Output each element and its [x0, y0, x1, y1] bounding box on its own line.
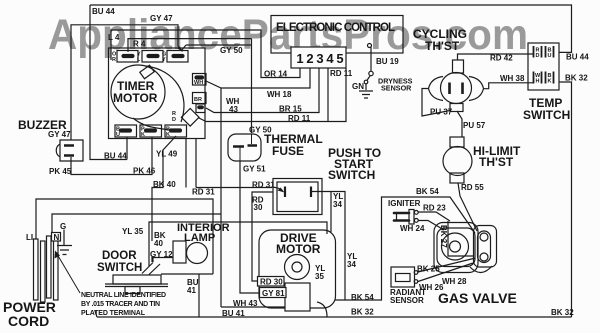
svg-text:WH 24: WH 24: [400, 224, 425, 233]
wire BK32 motor curve: [317, 302, 327, 317]
wire WH43 bottom: [221, 306, 285, 308]
drive motor rotor: [285, 255, 310, 280]
svg-text:RD 31: RD 31: [192, 188, 215, 197]
ground GN: [359, 84, 373, 98]
wire YL34: [312, 192, 345, 301]
timer cam follower curves: [133, 66, 184, 132]
wire BK32 bottom border: [95, 311, 572, 317]
power cord prong L1: [34, 239, 39, 300]
wire RD31 arrowhead: [273, 187, 283, 190]
svg-text:BU 41: BU 41: [222, 309, 245, 318]
cycling thermostat slots: [450, 83, 463, 95]
wire BR15: [206, 67, 319, 113]
node enclosure frame: [149, 222, 327, 266]
svg-text:SENSOR: SENSOR: [390, 296, 424, 305]
svg-text:2: 2: [306, 51, 313, 66]
drive motor RD30 label box: [258, 277, 285, 287]
svg-text:BK 40: BK 40: [153, 180, 176, 189]
svg-text:SENSOR: SENSOR: [381, 84, 412, 93]
svg-text:BK 32: BK 32: [551, 308, 574, 317]
N label box: [52, 233, 61, 242]
svg-text:YL 35: YL 35: [122, 227, 144, 236]
neutral line arrow: [57, 254, 80, 293]
radiant sensor body: [391, 267, 415, 287]
hi-limit body: [443, 147, 472, 176]
igniter body: [409, 210, 414, 225]
wire WH18: [206, 67, 310, 88]
svg-text:LI: LI: [26, 233, 33, 242]
svg-text:K: K: [548, 79, 552, 85]
svg-text:LAMP: LAMP: [184, 232, 215, 244]
electronic control terminal block 1-5: [291, 47, 346, 68]
wire BK32 tempswitch exit and right border: [559, 82, 572, 317]
svg-text:WH 28: WH 28: [442, 277, 467, 286]
cycling thermostat bottom tab: [450, 104, 463, 112]
svg-text:PU 57: PU 57: [463, 121, 486, 130]
svg-text:GY 47: GY 47: [150, 14, 173, 23]
wire BK25: [418, 258, 476, 272]
svg-text:RD 42: RD 42: [490, 54, 513, 63]
wire GY47 buzzer-timer: [71, 25, 178, 140]
power cord ground G: [57, 230, 72, 255]
svg-text:U: U: [116, 132, 120, 138]
power cord prong N: [47, 236, 52, 298]
timer WH terminal: [193, 74, 207, 86]
svg-text:WH 38: WH 38: [500, 74, 525, 83]
timer motor block box: [109, 48, 206, 139]
wire BU41 doorswitch: [161, 274, 213, 317]
svg-text:RD 55: RD 55: [461, 183, 484, 192]
thermal fuse terminals: [233, 146, 257, 147]
hi-limit bottom tab: [450, 173, 464, 183]
timer terminal OR: [117, 51, 138, 63]
wire RD31 stub verticals: [186, 139, 196, 188]
svg-text:RD 23: RD 23: [423, 204, 446, 213]
svg-text:BK 32: BK 32: [565, 74, 588, 83]
svg-text:30: 30: [254, 203, 263, 212]
svg-text:BK 54: BK 54: [416, 187, 439, 196]
interior lamp bulb: [187, 243, 208, 264]
wire RD42: [458, 54, 534, 60]
gas valve body: [434, 223, 478, 273]
igniter prongs: [394, 213, 409, 221]
wire RD55: [458, 183, 477, 231]
door switch base: [113, 275, 161, 284]
dryness sensor contact: [369, 71, 373, 75]
svg-text:SWITCH: SWITCH: [97, 262, 142, 274]
dryness sensor GN contact: [364, 80, 368, 84]
temp switch terminals WH BK: [534, 72, 554, 84]
wire GY50: [181, 39, 252, 133]
svg-text:N: N: [54, 233, 60, 242]
gas valve bracket hole bottom: [480, 253, 488, 261]
svg-text:41: 41: [187, 286, 196, 295]
wire GY12: [152, 258, 173, 263]
timer terminal PK: [140, 125, 162, 137]
svg-text:PU 37: PU 37: [430, 108, 453, 117]
svg-text:BY .015 TRACER AND TIN: BY .015 TRACER AND TIN: [81, 301, 160, 308]
svg-text:NEUTRAL LINE IDENTIFIED: NEUTRAL LINE IDENTIFIED: [81, 292, 166, 299]
wire BU44 top/right border: [90, 5, 572, 52]
wire WH38: [483, 83, 533, 89]
svg-text:BU 19: BU 19: [376, 57, 399, 66]
timer cam: [140, 65, 154, 79]
svg-text:K: K: [141, 132, 145, 138]
wire WH24: [418, 221, 444, 231]
wire PU37: [422, 89, 450, 117]
wire GY51: [240, 161, 259, 293]
temp switch box: [528, 43, 559, 90]
svg-text:GN: GN: [352, 82, 364, 91]
timer BR terminal: [193, 93, 207, 113]
svg-text:1: 1: [296, 51, 303, 66]
timer motor circle: [111, 65, 165, 119]
wire BU19: [370, 47, 372, 71]
svg-text:RD 30: RD 30: [260, 278, 283, 287]
gas valve bottom bump: [470, 266, 492, 273]
svg-text:D: D: [536, 53, 540, 59]
buzzer terminals: [64, 146, 74, 156]
wire PU57: [457, 111, 462, 137]
door switch contacts: [142, 258, 160, 275]
svg-text:BK 32: BK 32: [351, 308, 374, 317]
svg-text:RD 31: RD 31: [252, 181, 275, 190]
push to start terminals: [285, 187, 311, 198]
svg-text:K: K: [166, 132, 170, 138]
thermal fuse body: [228, 134, 261, 161]
svg-text:Y: Y: [162, 57, 166, 63]
hi-limit top tab: [450, 137, 464, 147]
drive motor connector: [285, 283, 310, 311]
svg-text:U: U: [548, 53, 552, 59]
interior lamp socket: [173, 241, 186, 263]
wire BU44 left vertical: [90, 5, 127, 160]
wire BK27: [448, 221, 474, 256]
svg-text:BU 44: BU 44: [104, 152, 127, 161]
svg-text:BK 25: BK 25: [417, 265, 440, 274]
svg-text:FUSE: FUSE: [272, 144, 304, 158]
wire N neutral: [52, 214, 221, 236]
wire RD31: [196, 187, 272, 189]
svg-text:MOTOR: MOTOR: [276, 242, 321, 256]
svg-text:40: 40: [154, 239, 163, 248]
svg-text:L 4: L 4: [108, 33, 120, 42]
svg-text:RD 11: RD 11: [288, 114, 311, 123]
svg-text:3: 3: [316, 51, 323, 66]
wire PK45: [71, 137, 152, 175]
push to start switch box: [273, 179, 322, 215]
svg-text:GY 47: GY 47: [48, 130, 71, 139]
wire GY47 arrowhead: [178, 46, 182, 51]
wire BK54: [335, 197, 475, 300]
svg-text:DOOR: DOOR: [102, 250, 137, 262]
dryness sensor hook: [368, 44, 372, 48]
timer RD diamond: [181, 108, 199, 126]
cycling thermostat top tab: [453, 60, 464, 73]
svg-text:GY 51: GY 51: [243, 165, 266, 174]
svg-text:IGNITER: IGNITER: [388, 199, 421, 208]
svg-text:R 4: R 4: [133, 40, 146, 49]
svg-text:WH: WH: [194, 80, 203, 86]
gas valve bracket hole top: [480, 233, 488, 241]
svg-text:35: 35: [315, 272, 324, 281]
buzzer body: [56, 140, 83, 161]
cycling thermostat wings: [429, 77, 484, 101]
svg-text:SWITCH: SWITCH: [328, 168, 375, 182]
svg-text:BR 15: BR 15: [279, 105, 302, 114]
svg-text:G: G: [60, 222, 66, 231]
gas valve bracket: [474, 226, 497, 268]
wire L4/OR14: [111, 30, 300, 78]
wire BK40 / YL49: [152, 136, 176, 241]
svg-text:BR: BR: [194, 97, 202, 103]
timer terminal BU: [115, 125, 137, 137]
svg-text:YL 49: YL 49: [156, 150, 178, 159]
wire RD23: [418, 212, 450, 221]
wire R4: [128, 39, 252, 52]
svg-text:GY 12: GY 12: [150, 250, 173, 259]
svg-text:GAS VALVE: GAS VALVE: [438, 290, 517, 306]
svg-text:PLATED TERMINAL: PLATED TERMINAL: [81, 310, 146, 317]
drive motor GY81 label box: [260, 288, 287, 298]
svg-text:TH'ST: TH'ST: [425, 39, 460, 53]
svg-text:34: 34: [333, 200, 342, 209]
svg-text:MOTOR: MOTOR: [113, 91, 158, 105]
timer terminal GY: [167, 51, 188, 63]
svg-text:BU 44: BU 44: [92, 7, 115, 16]
svg-text:D: D: [172, 117, 176, 123]
svg-text:GY 81: GY 81: [262, 289, 285, 298]
svg-text:H: H: [536, 79, 540, 85]
temp switch terminals RD BU: [534, 46, 554, 58]
timer terminal BK: [165, 125, 187, 137]
svg-text:5: 5: [336, 51, 343, 66]
wire L1 hot: [36, 199, 213, 274]
svg-text:CORD: CORD: [8, 313, 49, 329]
svg-text:4: 4: [326, 51, 334, 66]
wire RD30: [252, 192, 273, 281]
svg-text:34: 34: [347, 260, 356, 269]
svg-text:WH 43: WH 43: [233, 299, 258, 308]
svg-text:R: R: [112, 57, 116, 63]
igniter terminal hooks: [414, 211, 418, 215]
svg-text:PK 45: PK 45: [49, 167, 72, 176]
svg-text:43: 43: [229, 105, 238, 114]
drive motor body: [259, 230, 336, 308]
svg-text:RD 11: RD 11: [330, 69, 353, 78]
wire WH43 vertical: [220, 88, 222, 307]
svg-text:BK 54: BK 54: [351, 293, 374, 302]
wire WH26 / WH28: [418, 263, 473, 282]
svg-text:BU 44: BU 44: [566, 53, 589, 62]
gas valve coil: [442, 233, 469, 260]
svg-text:BK 27: BK 27: [439, 225, 448, 248]
cycling thermostat body: [441, 73, 472, 104]
wire RD11: [198, 67, 346, 122]
svg-text:ELECTRONIC CONTROL: ELECTRONIC CONTROL: [276, 22, 395, 34]
svg-text:PK 46: PK 46: [133, 167, 156, 176]
svg-text:SWITCH: SWITCH: [523, 108, 570, 122]
timer terminal YL: [142, 51, 163, 63]
svg-text:GY 50: GY 50: [220, 46, 243, 55]
svg-text:WH 18: WH 18: [267, 90, 292, 99]
svg-text:TH'ST: TH'ST: [479, 155, 514, 169]
svg-text:OR 14: OR 14: [264, 70, 288, 79]
electronic control box: [271, 16, 403, 54]
